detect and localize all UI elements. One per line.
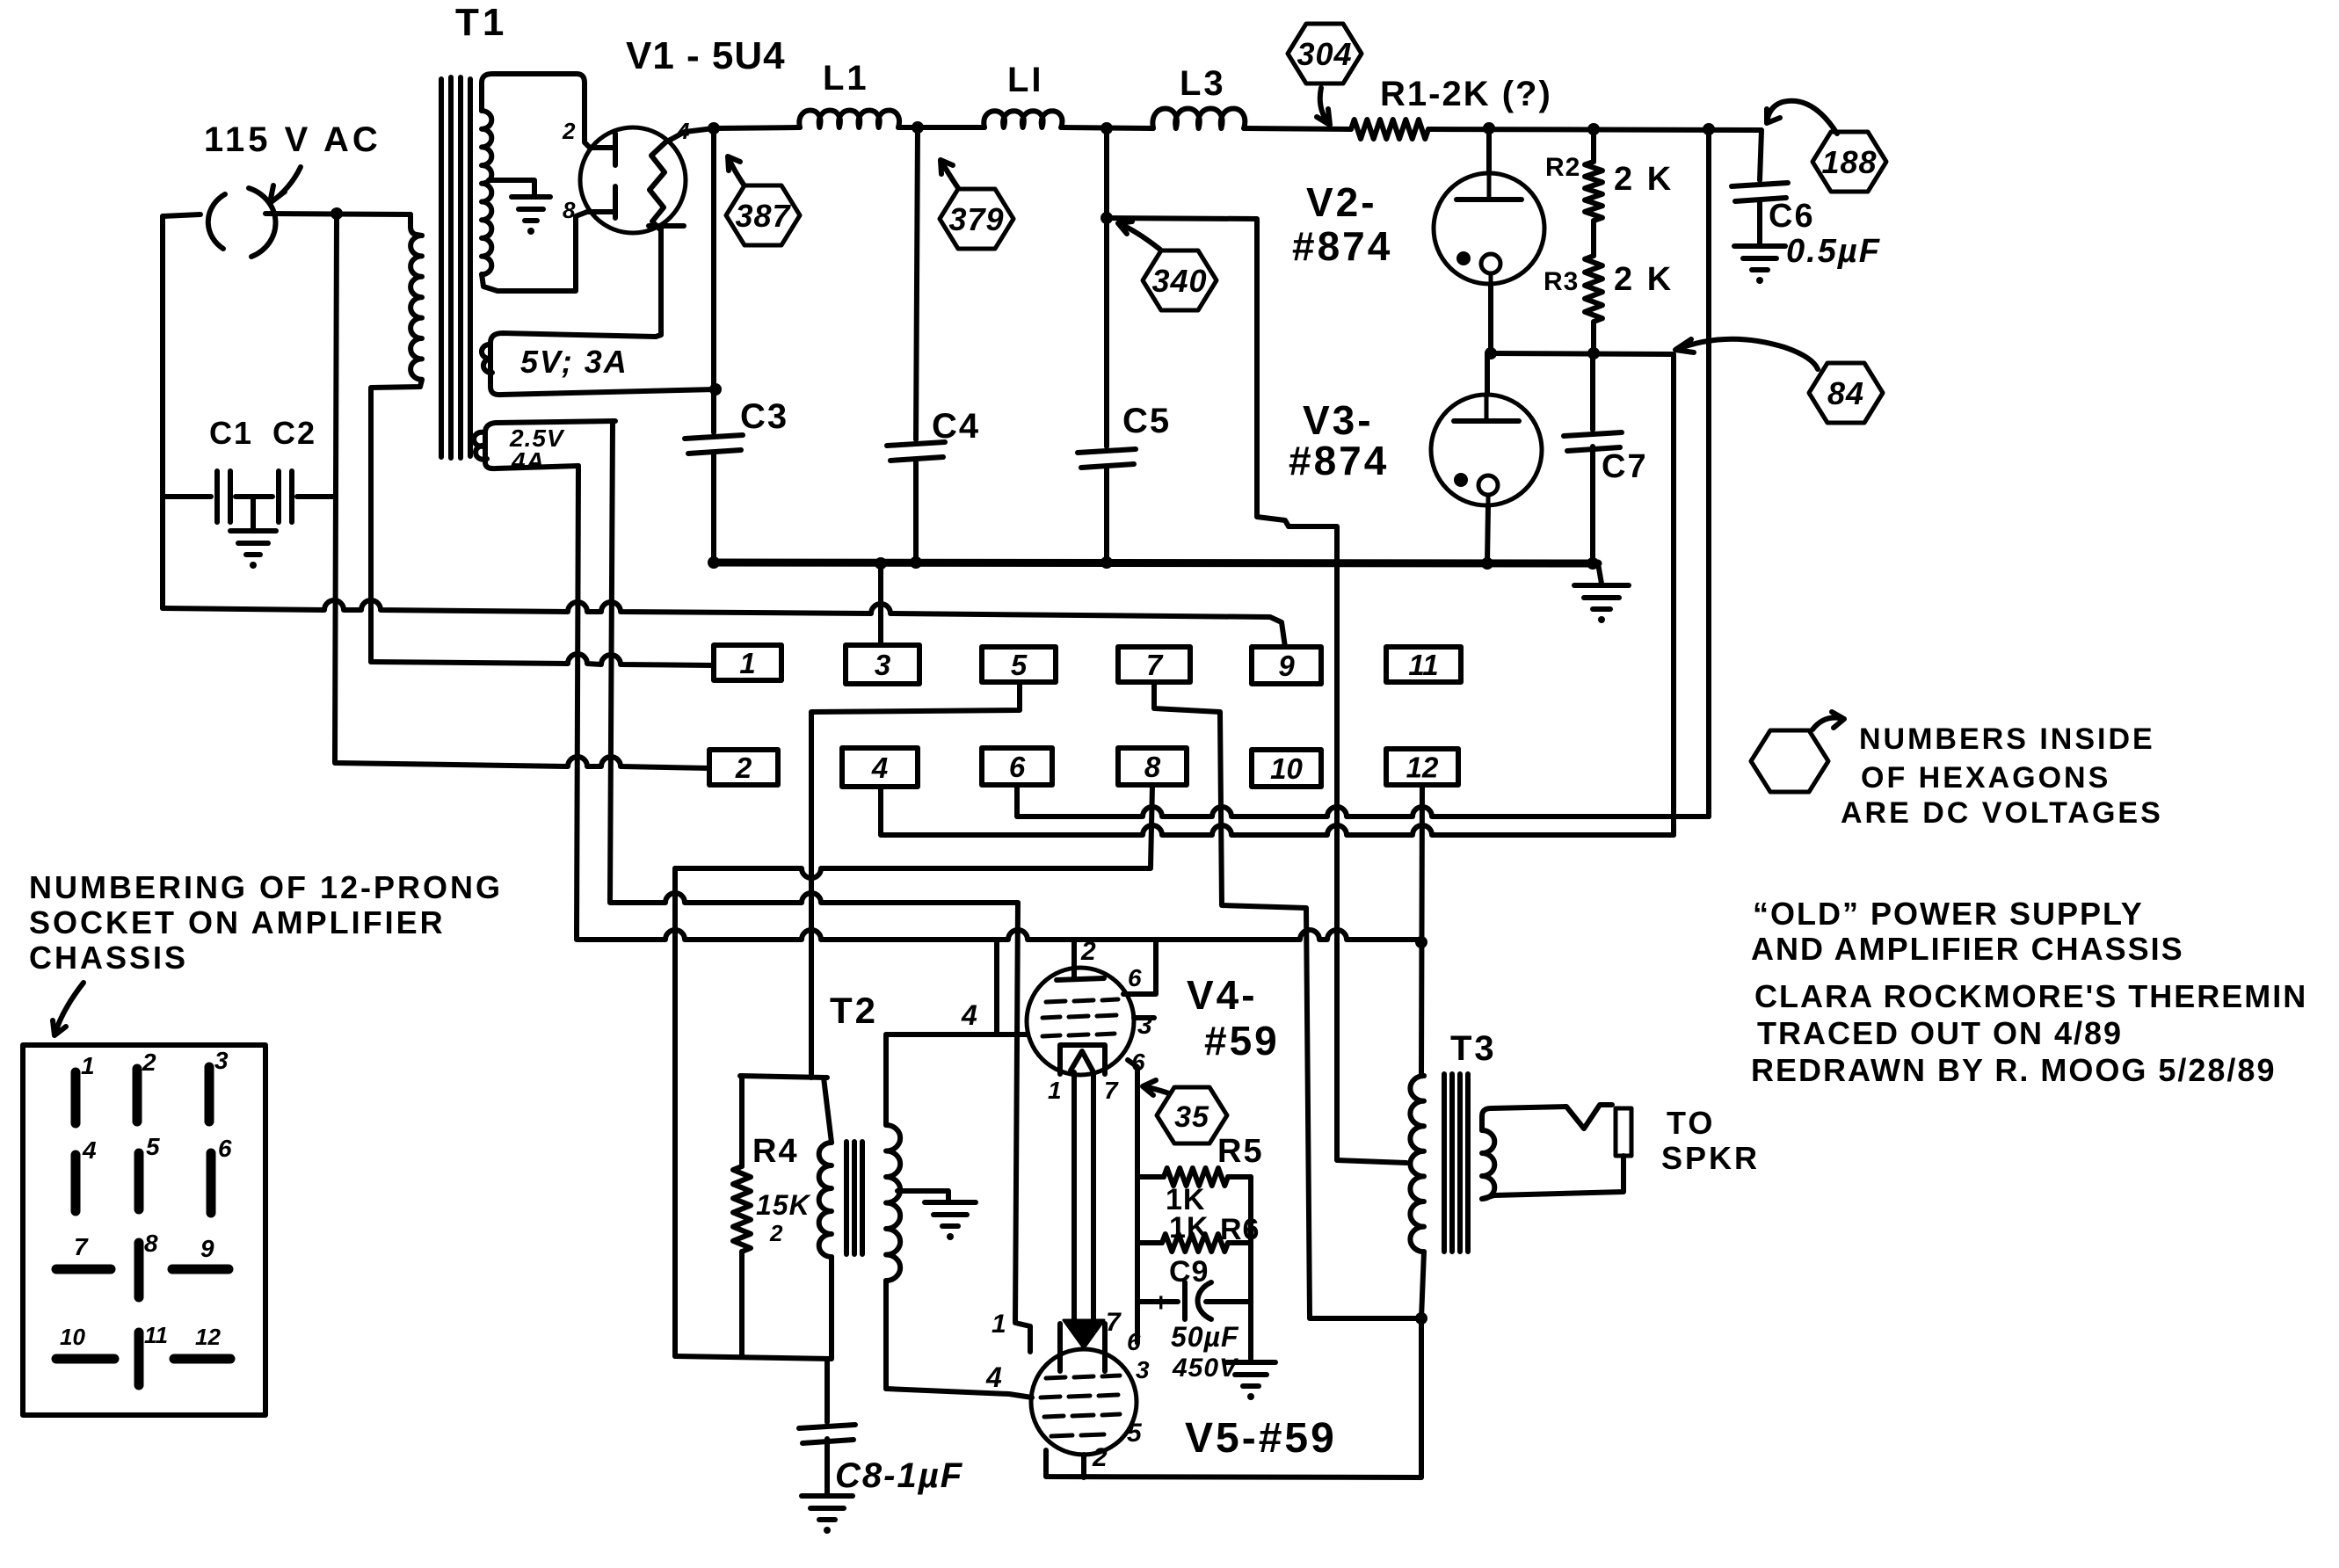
svg-text:7: 7 (74, 1233, 89, 1260)
resistor R1 (1351, 120, 1428, 139)
wire V3 cathode to ground bus (1487, 505, 1488, 563)
svg-text:CLARA ROCKMORE'S THEREMIN: CLARA ROCKMORE'S THEREMIN (1754, 978, 2307, 1014)
socket pin 7 (56, 1265, 111, 1274)
wire grid bar (1074, 1072, 1093, 1320)
legend hexagon (1751, 730, 1828, 792)
svg-text:5: 5 (1127, 1419, 1143, 1448)
svg-text:0.5µF: 0.5µF (1786, 233, 1881, 270)
svg-text:8: 8 (1144, 751, 1161, 783)
svg-text:T2: T2 (830, 990, 878, 1031)
node C4 junction (912, 121, 924, 134)
ground below C1 C2 (230, 528, 276, 534)
svg-text:C9: C9 (1169, 1255, 1209, 1289)
wire V4 pin6 down (1128, 1060, 1137, 1343)
svg-text:5: 5 (146, 1133, 160, 1160)
terminal 11 (1386, 647, 1461, 682)
wire T2 secondary tap ground (897, 1191, 948, 1201)
wire AC bottom loop (163, 494, 335, 499)
svg-text:2: 2 (142, 1049, 156, 1076)
socket pin 2 (133, 1069, 142, 1122)
svg-text:LI: LI (1007, 61, 1044, 99)
svg-text:V1 - 5U4: V1 - 5U4 (626, 34, 786, 77)
resistor R5 (1137, 1174, 1164, 1180)
wire V1 filament down (649, 226, 684, 337)
resistor R4 (739, 1076, 745, 1166)
wire bus R1 to C6 corner (1428, 129, 1762, 180)
svg-text:2: 2 (769, 1220, 783, 1246)
wire V4 cathode vertical (1015, 903, 1030, 1352)
svg-text:188: 188 (1821, 144, 1877, 180)
svg-text:TO: TO (1667, 1105, 1715, 1141)
node T3 top tap (1415, 936, 1427, 948)
svg-text:15K: 15K (756, 1189, 812, 1221)
ground T2 tap (925, 1200, 976, 1205)
transformer T2 core (846, 1142, 862, 1254)
svg-text:1: 1 (992, 1310, 1006, 1339)
wire V5 bottom rail (1046, 1450, 1420, 1477)
wire bus L2 to L3 (1061, 127, 1153, 128)
terminal 3 (846, 645, 919, 684)
svg-text:7: 7 (1106, 1308, 1122, 1337)
svg-text:1: 1 (81, 1052, 95, 1079)
socket pin 9 (172, 1265, 229, 1274)
socket pin 11 (134, 1332, 144, 1385)
node C5 V3 loop junction (1100, 212, 1113, 224)
tube V2 #874 (1434, 173, 1544, 284)
wire socket 4 to regulator node (881, 787, 1674, 835)
svg-text:84: 84 (1827, 375, 1864, 411)
arrow hexagon 387 (728, 156, 744, 185)
arrow hexagon 379 (941, 160, 958, 188)
node V3 ground (1481, 557, 1493, 570)
wire regulator mid node (1491, 353, 1672, 354)
hexagon 304 (1288, 24, 1362, 83)
svg-text:C6: C6 (1769, 198, 1815, 235)
svg-text:450V: 450V (1172, 1354, 1239, 1383)
arrow hexagon 304 (1317, 88, 1330, 125)
wire T3 bottom vertical (1419, 1318, 1424, 1477)
transformer T2 primary (824, 1078, 832, 1143)
capacitor C6 (1732, 183, 1788, 186)
svg-text:C3: C3 (740, 397, 788, 436)
svg-text:12: 12 (195, 1324, 221, 1350)
transformer T3 secondary (1482, 1130, 1494, 1199)
wire to socket 1 (371, 654, 714, 665)
wire left amp vertical (672, 868, 678, 1356)
terminal 12 (1386, 749, 1458, 785)
arrow to plug (270, 167, 301, 203)
svg-text:#874: #874 (1289, 438, 1389, 483)
transformer T1 primary winding (410, 236, 422, 380)
wire right vertical from regulator (1671, 354, 1676, 835)
svg-text:R6: R6 (1220, 1213, 1260, 1246)
svg-text:#874: #874 (1292, 223, 1392, 269)
wire C4 branch lower (913, 461, 919, 563)
winding 5V loops (482, 345, 492, 373)
svg-text:2: 2 (1080, 937, 1096, 966)
svg-text:6: 6 (1128, 964, 1142, 991)
node V2V3 mid (1485, 347, 1497, 359)
svg-text:1: 1 (739, 647, 755, 679)
hexagon 340 (1143, 250, 1217, 310)
node V2 junction (1483, 122, 1495, 134)
socket pin 10 (56, 1354, 114, 1364)
wire V4 plate pin2 (1071, 940, 1077, 978)
svg-text:NUMBERING OF 12-PRONG: NUMBERING OF 12-PRONG (29, 869, 503, 905)
svg-text:6: 6 (218, 1135, 232, 1162)
inductor L1 (799, 111, 899, 128)
wire socket 6 to right bus (1017, 785, 1709, 817)
socket pin 4 (71, 1155, 81, 1211)
terminal 9 (1252, 647, 1321, 684)
svg-text:4: 4 (961, 999, 977, 1031)
svg-text:3: 3 (875, 649, 890, 681)
svg-text:115 V AC: 115 V AC (204, 120, 381, 159)
hexagon 379 (940, 189, 1013, 249)
svg-text:C1: C1 (209, 415, 253, 451)
wire B+ bus segment V1 to L1 (685, 127, 800, 132)
svg-text:11: 11 (144, 1322, 168, 1348)
winding 2.5V loops (474, 432, 487, 460)
socket pin 6 (207, 1153, 216, 1213)
svg-text:R5: R5 (1217, 1133, 1264, 1170)
svg-text:35: 35 (1174, 1100, 1209, 1134)
svg-text:R3: R3 (1544, 267, 1579, 296)
socket pin 3 (205, 1067, 214, 1122)
node C5 junction (1100, 122, 1113, 134)
hexagon 188 (1812, 132, 1886, 192)
node 5V output junction (709, 383, 722, 396)
svg-text:10: 10 (1270, 752, 1303, 785)
svg-text:C4: C4 (932, 407, 980, 446)
svg-text:304: 304 (1297, 36, 1352, 72)
tube V5 envelope (1031, 1349, 1137, 1455)
svg-text:4: 4 (985, 1361, 1002, 1393)
transformer T2 secondary (883, 1034, 889, 1125)
wire C5 branch lower (1104, 468, 1109, 563)
svg-text:4A: 4A (511, 447, 545, 475)
node C3 ground (708, 556, 720, 569)
arrow hexagon 340 (1118, 221, 1160, 250)
tube V3 #874 (1431, 395, 1542, 505)
tube V1 envelope (580, 127, 686, 233)
svg-text:V3-: V3- (1303, 397, 1374, 443)
wire AC top right (265, 214, 410, 214)
node C7 ground (1587, 557, 1599, 570)
wire speaker loop (1482, 1105, 1612, 1130)
ground main bus (1574, 583, 1629, 588)
svg-text:C8-1µF: C8-1µF (835, 1456, 963, 1495)
legend arrow (1812, 712, 1844, 730)
hexagon 387 (726, 185, 800, 245)
wire C6 lower (1757, 201, 1762, 244)
svg-text:7: 7 (1146, 649, 1164, 681)
svg-text:C5: C5 (1122, 402, 1171, 440)
svg-text:5: 5 (1011, 649, 1028, 681)
ground C8 (802, 1493, 853, 1499)
capacitor C9 (1137, 1282, 1251, 1319)
capacitor C2 (276, 471, 281, 522)
capacitor C4 (887, 442, 945, 446)
svg-text:3: 3 (214, 1047, 229, 1074)
svg-text:T3: T3 (1450, 1029, 1497, 1068)
winding 2.5V 4A box (485, 421, 615, 468)
tube V4 grid dashes (1042, 999, 1118, 1036)
svg-text:2: 2 (562, 118, 576, 144)
socket pin 8 (134, 1243, 144, 1297)
ground C6 (1734, 243, 1785, 249)
socket pin 12 (174, 1354, 230, 1364)
wire T1 secondary top to V1 plate (482, 74, 590, 148)
svg-text:TRACED OUT ON 4/89: TRACED OUT ON 4/89 (1757, 1015, 2123, 1051)
wire socket 5 branch (811, 682, 1020, 1078)
svg-text:AND AMPLIFIER CHASSIS: AND AMPLIFIER CHASSIS (1751, 931, 2184, 967)
wire heater line B (577, 466, 1418, 940)
inductor L3 (1152, 109, 1245, 129)
wire C3 branch upper (711, 128, 716, 432)
svg-text:1: 1 (1048, 1077, 1062, 1104)
ground T1 center tap (512, 194, 550, 200)
wire socket 7 branch (1154, 682, 1310, 1317)
wire V4 screen hook pin6 (1123, 940, 1156, 994)
wire V4 pin3 stub (1134, 1015, 1154, 1020)
wire C5 branch upper (1104, 128, 1109, 446)
node right bus junction (1703, 123, 1715, 135)
svg-text:SPKR: SPKR (1661, 1140, 1760, 1176)
wire bus L1 to L2 (898, 125, 984, 130)
tube V4 filament box (1060, 1045, 1105, 1074)
wire speaker return (1482, 1156, 1623, 1199)
svg-text:R4: R4 (752, 1133, 799, 1170)
svg-text:SOCKET ON AMPLIFIER: SOCKET ON AMPLIFIER (29, 904, 446, 940)
node R2 junction (1587, 123, 1600, 135)
svg-text:2 K: 2 K (1614, 161, 1674, 198)
node V1 output junction (708, 122, 720, 134)
terminal 10 (1252, 750, 1321, 787)
svg-text:6: 6 (1009, 751, 1026, 783)
wire bus L3 to R1 (1244, 128, 1351, 129)
tube V1 anode 1 (590, 134, 615, 165)
svg-text:ARE DC VOLTAGES: ARE DC VOLTAGES (1841, 796, 2163, 830)
wire T1 secondary center tap (489, 180, 534, 195)
speaker terminal (1616, 1108, 1631, 1156)
svg-text:CHASSIS: CHASSIS (29, 940, 188, 976)
svg-text:387: 387 (735, 198, 791, 234)
svg-text:340: 340 (1151, 263, 1207, 299)
svg-text:1K: 1K (1169, 1211, 1209, 1245)
wire socket 12 to T3 (1421, 785, 1422, 1076)
wire bus end ground stub (1598, 563, 1602, 584)
svg-text:3: 3 (1137, 1011, 1152, 1040)
wire C4 branch upper (916, 127, 918, 439)
grid bar arrowhead (1064, 1320, 1104, 1348)
svg-text:379: 379 (948, 201, 1004, 237)
svg-text:C7: C7 (1602, 448, 1648, 485)
wire to socket 2 (335, 214, 709, 768)
transformer T1 secondary winding (482, 111, 491, 274)
svg-text:V4-: V4- (1187, 972, 1258, 1018)
svg-text:5V; 3A: 5V; 3A (520, 344, 628, 380)
terminal 7 (1118, 647, 1190, 682)
svg-text:2 K: 2 K (1614, 261, 1674, 298)
wire V3 anode (1485, 353, 1490, 395)
svg-text:9: 9 (200, 1235, 214, 1262)
wire AC neutral long (163, 600, 1285, 647)
svg-text:11: 11 (1408, 649, 1438, 681)
svg-text:OF HEXAGONS: OF HEXAGONS (1861, 761, 2110, 795)
winding 5V 3A box (490, 333, 716, 395)
svg-text:3: 3 (1136, 1356, 1150, 1383)
tube V4 plate bar (1057, 978, 1104, 980)
node C4 ground (910, 556, 922, 569)
tube V4 filament vee (1071, 1051, 1093, 1071)
capacitor C1 (214, 471, 220, 522)
wire V2 cathode to node (1488, 284, 1493, 353)
socket pin 1 (71, 1072, 81, 1123)
capacitor C8 (824, 1359, 830, 1422)
wire ground bus (712, 563, 1598, 563)
resistor R6 (1137, 1240, 1162, 1245)
terminal 1 (714, 645, 781, 680)
node R3 C7 mid (1587, 347, 1600, 359)
wire T1 primary top (410, 214, 422, 236)
capacitor C7 (1590, 353, 1595, 430)
wire R5 R6 right vertical (1248, 1177, 1253, 1359)
tube V5 grid cage (1060, 1324, 1105, 1371)
ground R5R6C9 (1226, 1360, 1275, 1365)
resistor R3 (1585, 256, 1602, 322)
svg-text:4: 4 (871, 751, 888, 784)
svg-text:L1: L1 (823, 59, 869, 98)
transformer T3 primary (1410, 1076, 1424, 1252)
hexagon 84 (1809, 363, 1883, 423)
transformer T1 core (441, 77, 470, 458)
arrow hexagon 188 (1767, 101, 1837, 134)
svg-text:50µF: 50µF (1171, 1321, 1239, 1353)
svg-text:REDRAWN BY R. MOOG 5/28/89: REDRAWN BY R. MOOG 5/28/89 (1751, 1052, 2276, 1088)
wire T1 primary bottom to socket wire (371, 380, 422, 662)
wire V5 cathode bottom (1081, 1455, 1086, 1477)
wire T2 R4 top (740, 1076, 827, 1078)
socket outline box (23, 1045, 265, 1415)
terminal 2 (709, 750, 778, 785)
svg-text:+: + (1153, 1289, 1169, 1318)
wire AC top left (163, 214, 200, 216)
wire AC left vertical (160, 216, 165, 608)
terminal 5 (982, 647, 1056, 682)
tube V4 envelope (1027, 968, 1134, 1075)
node T3 bottom (1415, 1312, 1427, 1325)
inductor L2 (984, 111, 1062, 127)
tube V5 grid dashes (1041, 1376, 1120, 1436)
wire filament return (675, 868, 1151, 878)
capacitor C3 (685, 435, 743, 439)
wire to hexagon 84 (1675, 339, 1818, 369)
tube V1 filament (650, 132, 685, 230)
svg-text:R2: R2 (1545, 153, 1580, 182)
svg-text:V2-: V2- (1306, 179, 1377, 225)
arrow to socket box (53, 983, 84, 1035)
capacitor C5 (1078, 449, 1136, 453)
svg-text:12: 12 (1406, 751, 1439, 783)
wire T2 to V5 grid pin4 (886, 1389, 1032, 1397)
svg-text:10: 10 (60, 1324, 85, 1350)
svg-text:R1-2K (?): R1-2K (?) (1380, 75, 1552, 113)
transformer T3 core (1444, 1074, 1468, 1252)
svg-text:C2: C2 (272, 415, 316, 451)
node C5 ground (1100, 556, 1113, 569)
svg-text:T1: T1 (455, 1, 507, 44)
terminal 4 (842, 748, 918, 787)
svg-text:4: 4 (82, 1136, 97, 1164)
svg-text:NUMBERS INSIDE: NUMBERS INSIDE (1859, 722, 2155, 756)
svg-text:2: 2 (1092, 1443, 1108, 1472)
wire socket 8 branch (1151, 785, 1152, 867)
wire V2 anode (1486, 128, 1492, 173)
svg-text:2: 2 (735, 751, 752, 784)
svg-text:7: 7 (1104, 1077, 1119, 1104)
svg-text:V5-#59: V5-#59 (1185, 1415, 1337, 1462)
tube V1 anode 2 (587, 186, 615, 218)
svg-text:6: 6 (1127, 1328, 1141, 1355)
wire bus to socket 3 (878, 563, 883, 645)
svg-text:“OLD” POWER SUPPLY: “OLD” POWER SUPPLY (1753, 896, 2144, 932)
svg-text:#59: #59 (1204, 1018, 1280, 1063)
hexagon 35 (1157, 1087, 1227, 1143)
resistor R2 (1591, 129, 1596, 162)
node AC junction (331, 207, 343, 220)
arrow hexagon 35 (1143, 1080, 1169, 1095)
wire V4 loop to T3 bottom (1310, 1317, 1421, 1318)
wire C1C2 ground stub (251, 497, 256, 529)
wire V4 grid pin4 (886, 940, 1028, 1034)
svg-text:8: 8 (563, 197, 576, 223)
terminal 8 (1118, 748, 1187, 785)
wire heater line A (610, 421, 1018, 903)
wire C3 branch lower (711, 454, 716, 563)
socket pin 5 (134, 1153, 144, 1209)
wire T1 secondary bottom to V1 plate (482, 212, 587, 291)
terminal 6 (982, 748, 1052, 785)
svg-text:8: 8 (144, 1230, 158, 1257)
AC plug connector (208, 188, 276, 257)
wire right vertical from bus (1706, 129, 1711, 817)
wire amp bottom (675, 1356, 832, 1359)
svg-text:9: 9 (1278, 650, 1295, 682)
wire C5 to T3 tap loop (1107, 218, 1406, 1163)
svg-text:L3: L3 (1180, 64, 1226, 103)
